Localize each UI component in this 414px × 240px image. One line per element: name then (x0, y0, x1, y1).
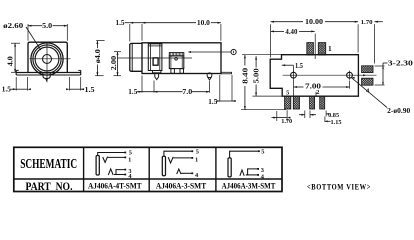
gap dim arrows bottom middle (304, 111, 306, 119)
svg-text:5.0: 5.0 (42, 22, 53, 30)
side view: contact block 2 body (169, 56, 184, 69)
front view: center lines (29, 58, 70, 60)
schematic2 tip contact V (168, 157, 173, 163)
schematic2 line pin4 (181, 172, 192, 174)
svg-text:5: 5 (286, 89, 290, 96)
svg-text:5: 5 (196, 148, 199, 155)
bottom view: right pad upper (362, 66, 373, 73)
svg-text:4.40: 4.40 (285, 28, 297, 36)
svg-text:4: 4 (195, 172, 199, 179)
svg-text:1: 1 (328, 44, 332, 53)
svg-text:1.5: 1.5 (128, 88, 138, 96)
schematic1 line pin1 (108, 156, 125, 158)
bottom view: hole 1 (291, 72, 297, 78)
schematic1 jack body (96, 156, 99, 176)
svg-text:AJ406A-4T-SMT: AJ406A-4T-SMT (88, 181, 142, 191)
svg-text:3-2.30: 3-2.30 (388, 60, 414, 67)
schematic3 switch bracket pins 3,4 (246, 169, 258, 175)
svg-text:7.00: 7.00 (305, 82, 322, 90)
svg-text:1.5: 1.5 (208, 98, 218, 106)
front view: center hole o2.60 (43, 55, 52, 64)
dim 1.5 top (barrel) (129, 24, 131, 42)
svg-text:2.00: 2.00 (110, 55, 118, 70)
leader 2-o0.90 (352, 78, 387, 108)
dim 4.40 (314, 34, 316, 59)
svg-text:SCHEMATIC: SCHEMATIC (20, 156, 77, 171)
svg-text:0.85: 0.85 (328, 112, 340, 119)
svg-text:8.40: 8.40 (241, 67, 249, 84)
dim 1.15 (324, 117, 326, 123)
side view: pin 1 (front pin) (153, 71, 161, 73)
side view: right smt tab (221, 72, 232, 74)
svg-text:1.70: 1.70 (281, 118, 293, 125)
dim 5.0 top of front view (27, 24, 29, 41)
side view: center line (118, 57, 192, 59)
schematic3 ring contact (240, 170, 244, 176)
table outer border (14, 147, 282, 191)
bottom view: right pad lower (362, 78, 373, 85)
svg-text:5: 5 (129, 149, 132, 156)
schematic2 line pin1 (173, 157, 192, 159)
svg-text:4.0: 4.0 (7, 56, 15, 67)
svg-text:10.0: 10.0 (197, 19, 211, 27)
svg-text:AJ406A-3M-SMT: AJ406A-3M-SMT (222, 181, 276, 191)
dim o4.0 left of side view (96, 40, 104, 42)
svg-text:1.70: 1.70 (361, 19, 374, 26)
dim 1.5 bottom-right flange (69, 77, 71, 91)
svg-text:PART NO.: PART NO. (26, 181, 73, 193)
schematic1 line pin5 (98, 153, 125, 156)
schematic3 line pin5 (230, 151, 259, 158)
dim 0.85 (325, 111, 327, 117)
dim 1.70 bottom (276, 111, 278, 121)
table column dividers (83, 147, 85, 191)
schematic1 switch bracket pins 3,4 (114, 170, 125, 175)
bottom view: top pad B (318, 43, 325, 55)
dim 1.5 right tab of side view (219, 75, 221, 102)
dim 7.0 bottom of side view (209, 81, 211, 93)
ext lines left (242, 54, 282, 56)
dim 1.5 hole1 (282, 64, 294, 66)
bottom view: bottom pads (285, 96, 291, 109)
schematic2 ring contact (177, 169, 181, 174)
side view: barrel bushing (130, 43, 142, 71)
dim 3-2.30 (375, 65, 385, 67)
schematic1 ring contact (108, 169, 113, 175)
dim 1.5 bottom-left of side view (141, 76, 143, 93)
svg-text:4: 4 (366, 87, 370, 94)
dim 7.00 holes (293, 80, 295, 96)
side view: contact block 1 (148, 44, 162, 71)
dim 4.0 left of front view (11, 42, 20, 44)
schematic1 tip contact V (103, 157, 108, 163)
svg-text:1.5: 1.5 (2, 86, 12, 94)
dim 8.40 (244, 55, 246, 66)
dim 1.5 bottom-left flange (15, 77, 17, 91)
dim 1.70 top right (373, 24, 375, 63)
side view: block 2 feet (171, 69, 175, 74)
leader to circled 1 (191, 51, 231, 53)
table row divider (14, 178, 282, 180)
svg-text:1.5: 1.5 (85, 86, 96, 94)
dim 2.00 (117, 52, 119, 76)
front view: mounting flange (16, 72, 81, 74)
svg-text:1: 1 (195, 157, 198, 164)
front view: outer ring (31, 43, 63, 75)
schematic2 jack body (162, 156, 165, 176)
side view: block 1 window (153, 58, 158, 65)
front view: inner ring (35, 47, 59, 71)
bottom view: body outline (270, 55, 358, 96)
dim 5.00 (255, 56, 257, 67)
dim o2.60 leader (26, 27, 41, 50)
dim 10.00 top (270, 24, 272, 57)
dim 10.0 top of side view (220, 24, 222, 41)
svg-text:2-ø0.90: 2-ø0.90 (387, 108, 411, 115)
front view: bottom solder lug (43, 73, 50, 79)
svg-text:1: 1 (128, 157, 131, 164)
bottom view: hole 2 (347, 72, 353, 78)
svg-text:5: 5 (261, 148, 264, 155)
side view: contact block 2 striped band (169, 53, 184, 56)
svg-text:<BOTTOM VIEW>: <BOTTOM VIEW> (307, 182, 371, 192)
front view: jack body outline (28, 42, 67, 72)
svg-text:1.5: 1.5 (295, 62, 303, 70)
svg-text:ø2.60: ø2.60 (3, 22, 24, 30)
schematic2 line pin5 (164, 151, 192, 156)
svg-text:5.00: 5.00 (253, 68, 261, 84)
svg-text:1.5: 1.5 (116, 19, 126, 27)
svg-text:10.00: 10.00 (305, 18, 324, 26)
circled mark (231, 49, 236, 54)
bottom view: top pad A (307, 43, 314, 55)
side view: pin 2 (rear pin) (207, 73, 212, 78)
svg-text:1.15: 1.15 (331, 119, 343, 126)
schematic3 jack body (228, 158, 231, 177)
side view: main body (142, 43, 221, 74)
front view: middle ring (33, 45, 61, 73)
svg-text:7.0: 7.0 (182, 88, 193, 96)
svg-text:ø4.0: ø4.0 (94, 49, 102, 64)
svg-text:AJ406A-3-SMT: AJ406A-3-SMT (156, 181, 207, 191)
